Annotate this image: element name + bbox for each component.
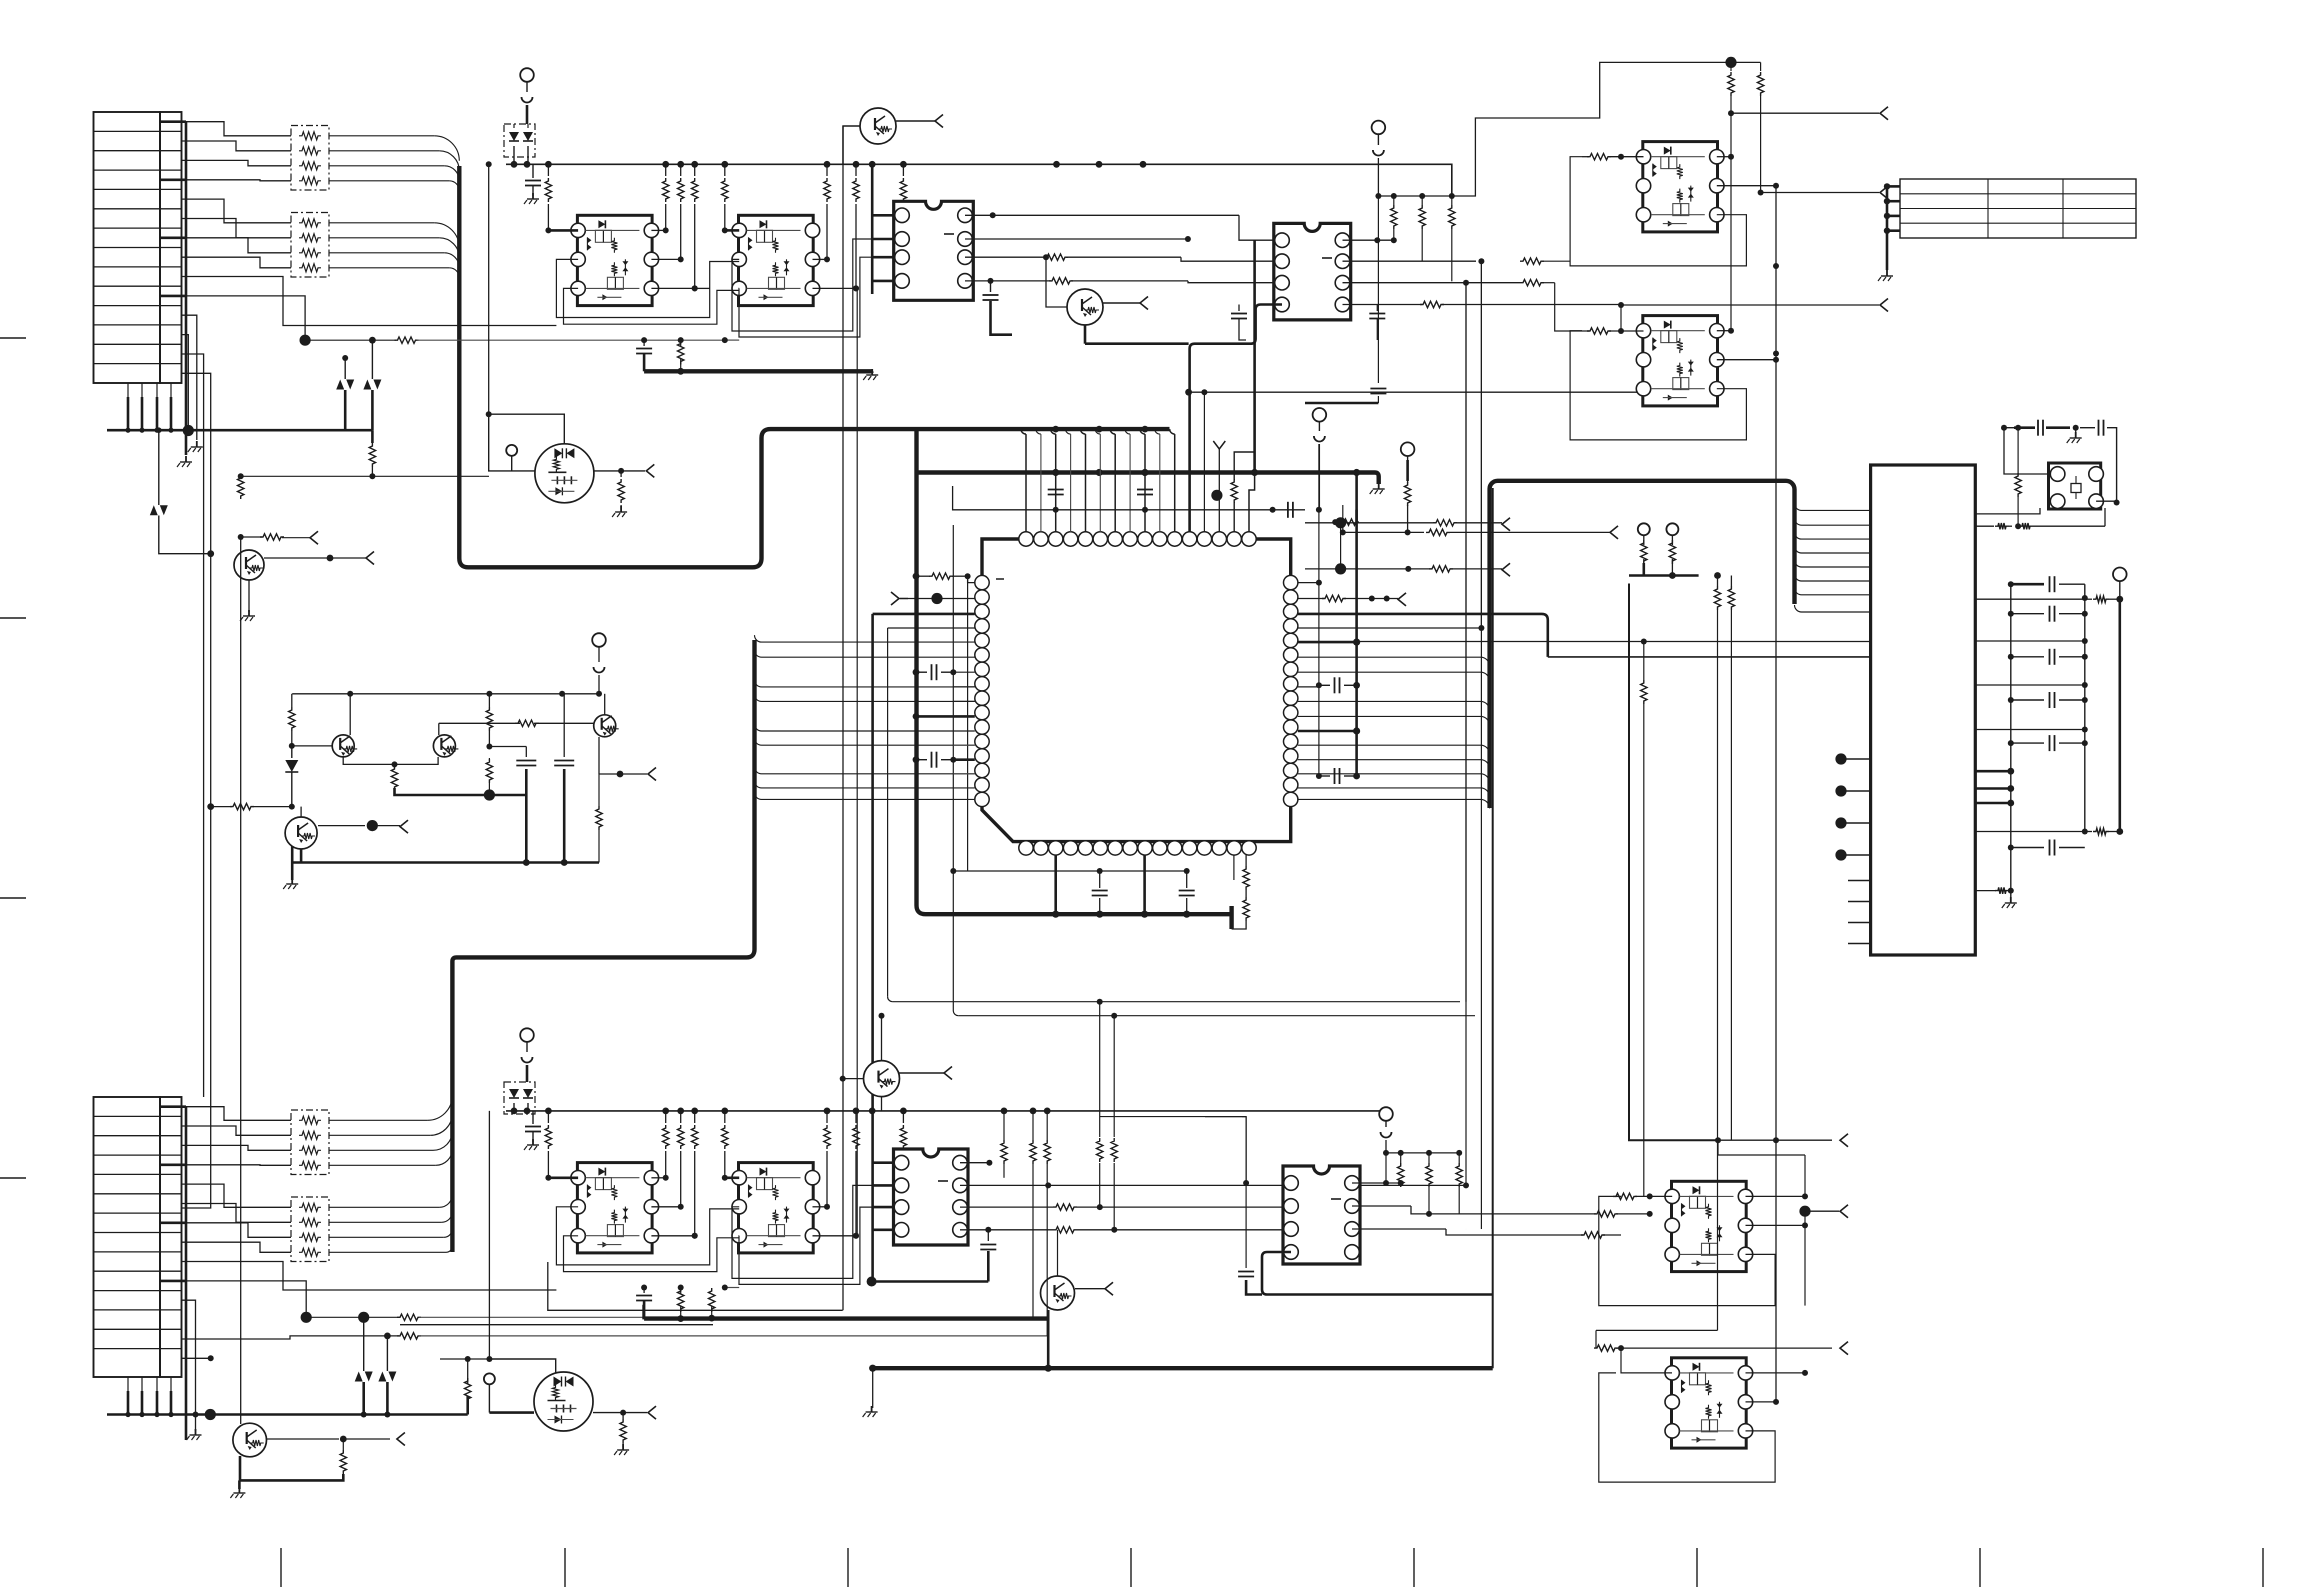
wire PC101 pins — [548, 229, 578, 232]
opto module PC203 — [1672, 1181, 1747, 1271]
crystal X201 — [2049, 463, 2101, 509]
fuse bar F101 — [526, 105, 529, 124]
wire qfp.p1 bend — [968, 576, 975, 582]
op-amp IC103 — [894, 1149, 969, 1245]
resistor R202 — [1404, 482, 1410, 506]
resistor R117 — [488, 694, 490, 707]
wire row9 long — [182, 277, 557, 326]
wire gray return / cap C102 / resistor R111 — [725, 339, 739, 341]
wire Q110 out — [899, 1072, 944, 1074]
wire PC101 return A — [556, 259, 739, 317]
wire CN102 pins — [127, 1377, 129, 1391]
wire PC204 loop — [1599, 1373, 1775, 1482]
arrow out r3 — [1880, 299, 1888, 312]
suppressor D103 — [336, 380, 344, 390]
bus row795 — [489, 794, 526, 797]
wire thick y403 — [1305, 402, 1378, 405]
cap C219 — [2080, 427, 2095, 429]
cap C204 — [1319, 775, 1330, 777]
wire CN101 rows to arrays — [182, 122, 292, 136]
wire long y1015 — [958, 1015, 1475, 1017]
resistor R206 — [1451, 196, 1453, 205]
wire v1717 to PC204 — [1596, 1329, 1718, 1331]
wire D104 top — [371, 340, 373, 379]
cap C201 — [1048, 489, 1064, 491]
wire b-row10 — [182, 1281, 307, 1317]
suppressor D112 — [378, 1372, 386, 1382]
wire PC201 out2 — [1717, 185, 1776, 187]
terminal P203 — [2113, 568, 2127, 582]
wire b-row14 — [182, 1357, 211, 1359]
arrow out b1 — [1840, 1134, 1848, 1147]
wire CN201 left lower — [1835, 753, 1846, 764]
resistor array RA101 — [291, 126, 329, 191]
wire Q109 base — [240, 537, 242, 1424]
ground G102 — [871, 369, 873, 375]
resistor R132 — [680, 1111, 682, 1123]
ground CN201 — [2010, 897, 2012, 903]
ground C101 — [532, 193, 534, 199]
wire IC104.l4 thick — [1262, 1252, 1493, 1295]
bus v1356 — [1355, 473, 1358, 777]
wire Q108 emit — [248, 580, 250, 600]
cap C205 — [1287, 502, 1289, 518]
wire CN201 right rows — [1975, 598, 2085, 600]
wire v1378 down — [1377, 196, 1379, 383]
wire PC203 loop — [1599, 1196, 1775, 1305]
resistor R135 — [826, 1111, 828, 1123]
wire Q101 riser — [842, 126, 844, 1310]
wire table pins — [1886, 186, 1889, 270]
wire qfp left misc — [953, 686, 975, 688]
wire Q108 top — [238, 473, 244, 479]
clamp P104 — [594, 667, 605, 673]
terminal P201 — [1313, 408, 1327, 422]
wire PC203 out2 — [1746, 1224, 1806, 1226]
wire Q107 out — [318, 825, 365, 827]
wire xtal right — [2096, 500, 2117, 502]
power rail mid — [292, 693, 599, 695]
resistor R105 — [680, 164, 682, 176]
bus qfp south end — [1229, 906, 1233, 929]
wire IC103.r4 — [960, 1229, 1053, 1231]
fuse bar F102 — [526, 1065, 529, 1082]
wire PC104 return B — [739, 1207, 894, 1284]
resistor R222 — [1458, 1153, 1460, 1163]
resistor R106 — [694, 164, 696, 176]
wire staircase up — [1452, 62, 1731, 196]
resistor R210 — [2085, 831, 2092, 833]
resistor R204 — [1393, 196, 1395, 205]
bus v2119 — [2119, 599, 2122, 831]
bus trunk G — [1490, 481, 1795, 808]
resistor R116 — [394, 764, 396, 768]
wire qfp right merge bundle — [1298, 657, 1490, 666]
thick stubs CN201 — [1975, 770, 2011, 773]
bus IC103 stubs — [872, 1161, 895, 1164]
wire Q106 col — [604, 694, 606, 715]
transistor Q111 — [1041, 1276, 1075, 1310]
opto module PC102 — [739, 215, 814, 305]
wire res row — [1378, 195, 1451, 197]
wire v1342 — [1342, 505, 1344, 532]
arrow out b2 — [1840, 1205, 1848, 1218]
suppressor D101 — [150, 505, 158, 515]
opto module PC204 — [1672, 1358, 1747, 1448]
wire row12 — [182, 335, 189, 431]
resistor R136 — [855, 1111, 857, 1123]
bus GND bottom-left — [107, 1413, 468, 1416]
wire v1466 down — [1465, 283, 1467, 1185]
transistor Q105 — [433, 735, 455, 757]
wire Q111 base — [1057, 1230, 1059, 1276]
wire IC102 r1 — [1343, 239, 1378, 241]
resistor R224 — [1669, 540, 1675, 564]
connector CN102 — [94, 1097, 161, 1377]
bus GND top-left — [107, 429, 372, 432]
wire IC103.r1 — [960, 1162, 989, 1164]
resistor R131 — [665, 1111, 667, 1123]
wire xtal row2 — [1975, 525, 1994, 527]
resistor R140 — [465, 1378, 471, 1402]
wire PC102 pins — [725, 229, 739, 232]
wire IC101.1 to IC102 — [965, 214, 993, 216]
wire qfp.b3 thick — [1054, 855, 1057, 914]
wire Q106 base — [439, 722, 520, 724]
wire Q103 gate/drain — [489, 414, 565, 444]
wire Q109 emit — [239, 1456, 242, 1480]
terminal P106 — [484, 1373, 495, 1384]
wire row10 gray return — [182, 296, 306, 340]
wire CN102 stubs — [185, 1107, 188, 1440]
ground G104 — [872, 1368, 874, 1408]
wire Q112 gate/drain — [489, 1359, 555, 1373]
wire PC202 in — [1587, 328, 1611, 334]
wire xtal top — [2004, 427, 2014, 429]
connector CN101 — [94, 112, 161, 383]
wire Q102 emitter — [1084, 325, 1087, 344]
wire Q109 out — [267, 1438, 339, 1440]
resistor R223 — [1641, 540, 1647, 564]
cap C220 — [1245, 1183, 1247, 1268]
op-amp IC104 — [1283, 1166, 1360, 1264]
wire row13 riser — [182, 354, 204, 1097]
transistor Q102 — [1067, 289, 1103, 325]
ground G101 — [185, 456, 187, 462]
resistor R118 — [598, 774, 600, 806]
wire Q111 emit — [1047, 1310, 1050, 1368]
cap C210 — [1238, 305, 1240, 312]
wire gnd row — [1975, 890, 1996, 892]
wire Q110 base — [843, 1078, 864, 1080]
wire qfp.r3 thickZ — [1298, 614, 1548, 657]
wire PC202 out2 — [1717, 359, 1776, 361]
wire IC101.7 — [965, 238, 1188, 240]
wire Q104-Q105 — [343, 757, 394, 764]
wire Q111 out — [1075, 1288, 1105, 1290]
wire IC102.r2 to PC201 — [1343, 260, 1477, 262]
wire PC204 out2 — [1746, 1401, 1777, 1403]
wire IC102.8 thickL — [1190, 305, 1282, 532]
opto module PC202 — [1643, 316, 1718, 406]
wire PC103 return B — [564, 1236, 740, 1272]
suppressor D111 — [355, 1372, 363, 1382]
bus qfp south — [1052, 911, 1059, 918]
ground G103 — [291, 878, 293, 884]
wire PC201 out1 — [1717, 156, 1731, 158]
wire PC204 out1 — [1746, 1372, 1806, 1374]
diode D105 — [291, 746, 293, 758]
arrow Y in — [1213, 441, 1225, 449]
resistor array RA102 — [291, 213, 329, 278]
bus gnd bottom rail — [873, 1366, 1493, 1370]
diode pack D102 — [504, 124, 535, 157]
resistor R211 — [2017, 428, 2019, 473]
wire IC104.r3 — [1352, 1228, 1446, 1230]
resistor R142 — [342, 1439, 344, 1450]
wire y392 — [1189, 391, 1640, 393]
connector CN201 — [1871, 465, 1976, 955]
transistor Q109 — [233, 1423, 267, 1457]
wire v1321 — [1318, 444, 1320, 776]
wire PC103 return A — [556, 1207, 739, 1265]
resistor R109 — [855, 164, 857, 176]
resistor R120 — [371, 430, 374, 443]
terminal P206 — [1666, 523, 1678, 535]
wire Q110 col — [881, 1016, 883, 1061]
terminal P102 — [506, 445, 517, 456]
terminal P104 — [592, 633, 606, 647]
clamp P204 — [1381, 1132, 1392, 1138]
bus v1629 — [1629, 584, 1718, 1141]
wire qfp pin16 — [1249, 473, 1255, 532]
arrow out r1 — [1880, 107, 1888, 120]
cap C203 — [1319, 684, 1330, 686]
wire PC203 out1 — [1746, 1195, 1806, 1197]
cap C209 — [1186, 871, 1188, 888]
mosfet module Q112 — [534, 1372, 593, 1431]
wire qfp.r4 — [1298, 627, 1482, 629]
cap C114 — [987, 1230, 989, 1241]
bus trunk B qfp west — [917, 429, 1232, 914]
table NOTE — [1900, 179, 2136, 238]
wire Q104 col — [349, 694, 351, 735]
resistor R130 — [547, 1111, 549, 1123]
arrow out b3 — [1840, 1342, 1848, 1355]
wire qfp left fan bundle — [755, 635, 975, 642]
wire row806 — [211, 806, 232, 808]
terminal P202 — [1401, 442, 1415, 456]
wire rail taps — [1003, 1111, 1005, 1140]
wire IC104.r2 — [1352, 1205, 1411, 1207]
suppressor D104 — [363, 380, 371, 390]
cap C218 — [2037, 420, 2039, 436]
transistor Q108 — [234, 550, 264, 580]
resistor R138 — [678, 1288, 684, 1312]
bus trunk A — [459, 166, 1169, 567]
opto module PC201 — [1643, 142, 1718, 232]
wire Q107 emit — [300, 849, 303, 863]
resistor R207 — [1730, 62, 1732, 71]
wire Q110 emitter — [881, 1096, 883, 1111]
cap C113 — [643, 1288, 645, 1294]
wire qfp.r2 arrow — [1298, 598, 1324, 600]
wire IC101.6 via R112 — [965, 256, 1046, 258]
resistor R137 — [902, 1111, 904, 1123]
wire PC101 return B — [564, 288, 740, 324]
resistor R226 — [1730, 576, 1732, 587]
wire CN102 rows to arrays — [182, 1107, 292, 1121]
wire y509 bus — [953, 486, 1305, 510]
wire IC102.r3 — [1343, 282, 1521, 284]
op-amp IC102 — [1274, 223, 1351, 320]
wire Q102 base — [1046, 257, 1067, 307]
power rail bottom — [506, 1110, 1386, 1112]
wire b-row13 — [182, 1336, 400, 1339]
wire D112 top — [386, 1336, 388, 1371]
wire PC203 in — [1613, 1193, 1637, 1199]
wire PC202 loop — [1570, 331, 1746, 440]
resistor R201 — [1332, 519, 1338, 525]
wire row1324 — [400, 1324, 713, 1326]
opto module PC101 — [577, 215, 652, 305]
resistor array RA104 — [291, 1197, 329, 1262]
resistor R205 — [1421, 196, 1423, 205]
cap C110 — [489, 746, 526, 748]
resistor R209 — [2085, 598, 2092, 600]
resistor R203 — [1245, 855, 1247, 866]
resistor R220 — [1400, 1153, 1402, 1163]
wire qfp pin13 — [1203, 392, 1205, 532]
resistor R139 — [622, 1413, 624, 1419]
bus IC101 supply stubs — [871, 164, 874, 294]
caps C212-C217 ladder — [2011, 583, 2044, 586]
wire Q107 base — [300, 807, 302, 817]
wire y871 — [952, 870, 1187, 872]
bus GND mid bottom — [644, 1316, 1048, 1320]
resistor R119 — [238, 475, 244, 499]
wire IC101.5 via R113 — [965, 280, 1051, 282]
resistor R114 — [620, 471, 622, 477]
cap C101 — [532, 164, 534, 178]
wire Q101 collector — [843, 126, 860, 164]
wire row522 — [1305, 522, 1436, 524]
wire Q103 source — [594, 470, 621, 472]
wire PC204 in — [1594, 1345, 1618, 1351]
op-amp IC101 — [894, 201, 974, 300]
diode pack D110 — [504, 1082, 535, 1114]
arrow out r2 — [1880, 186, 1888, 199]
transistor Q110 — [864, 1061, 900, 1097]
wire D103 top — [344, 358, 346, 379]
transistor Q107 — [285, 817, 317, 849]
wire PC202 out1 — [1717, 330, 1731, 332]
cap C111 — [563, 694, 565, 757]
opto module PC104 — [739, 1163, 814, 1253]
wire bus peel to CN201 — [1795, 503, 1871, 510]
wire Q112 source — [593, 1412, 623, 1414]
wire row568 — [1305, 568, 1432, 570]
resistor array RA103 — [291, 1110, 329, 1175]
resistor R208 — [1760, 62, 1762, 71]
cap C112 — [532, 1111, 534, 1124]
wire arrow row 532 — [1343, 531, 1424, 533]
wire IC102.r4 — [1343, 304, 1423, 306]
transistor Q101 — [860, 108, 896, 144]
power rail VCC top — [506, 164, 1452, 196]
bus v1253 — [1253, 240, 1256, 473]
wire Q102 out — [1103, 302, 1140, 304]
terminal P205 — [1638, 523, 1650, 535]
wire v1644 down — [1643, 642, 1645, 681]
bus trunk H — [1492, 488, 1494, 1368]
wire row476 — [241, 475, 489, 477]
resistor R110 — [902, 164, 904, 176]
wire qfp.p10 thick — [913, 713, 920, 720]
wire b-row11 — [182, 1300, 196, 1414]
bus GND mid top — [644, 369, 872, 373]
wire PC103 pins — [548, 1177, 578, 1180]
wire xtal left — [2004, 428, 2050, 474]
wire res row b — [1386, 1152, 1459, 1154]
wire PC201 loop — [1570, 157, 1746, 266]
resistor R107 — [724, 164, 726, 176]
resistor R221 — [1428, 1153, 1430, 1163]
clamp P105 — [522, 1057, 533, 1063]
wire IC104.r1 — [1352, 1182, 1386, 1184]
clamp P101 — [522, 97, 533, 103]
cap C206 — [913, 669, 920, 676]
wire row1310 — [548, 1262, 843, 1310]
cap C207 — [913, 756, 920, 763]
arrow out1 — [935, 115, 943, 128]
arrow qfp.p2 in — [891, 592, 899, 605]
wire gray return b — [725, 1287, 739, 1289]
wire v953 — [952, 525, 954, 1011]
cap C202 — [1137, 489, 1153, 491]
wire qfp.p3 thick — [873, 613, 975, 616]
wire PC104 pins — [725, 1177, 739, 1180]
bus gnd mid cluster — [292, 861, 599, 864]
wire qfp.b15 — [1233, 855, 1235, 880]
wire qfp.p4 — [888, 627, 975, 629]
wire qfp.r5 thick — [1298, 641, 1357, 644]
wire PC104 return A — [732, 1185, 894, 1278]
terminal P105 — [520, 1028, 534, 1042]
wire IC104 feed c — [1100, 1116, 1242, 1118]
wire trunk F bottom — [867, 1277, 877, 1287]
microcontroller IC201 — [982, 539, 1291, 842]
bus trunk F left — [871, 614, 874, 1282]
wire qfp.b9 thick — [1143, 855, 1146, 914]
wire CN101 common stubs — [185, 122, 188, 455]
transistor Q104 — [332, 735, 354, 757]
wire qfp.r8 cap — [1298, 686, 1319, 688]
wire qfp.r1 — [1298, 582, 1319, 584]
wire Q108 out — [264, 557, 330, 559]
wire qfp.r11 thick — [1298, 730, 1357, 733]
wire CN201 right rails — [2010, 584, 2012, 900]
resistor R115 — [291, 694, 293, 707]
wire risers a — [856, 290, 858, 1237]
ground xtal — [2075, 428, 2077, 434]
wire D111 top — [363, 1317, 365, 1371]
bus b-thick 1318 — [644, 1305, 713, 1318]
wire PC102 return B — [739, 257, 894, 337]
wire v1481 down — [1480, 261, 1482, 1229]
wire qfp top pins — [1021, 429, 1026, 434]
transistor Q106 — [594, 715, 616, 737]
